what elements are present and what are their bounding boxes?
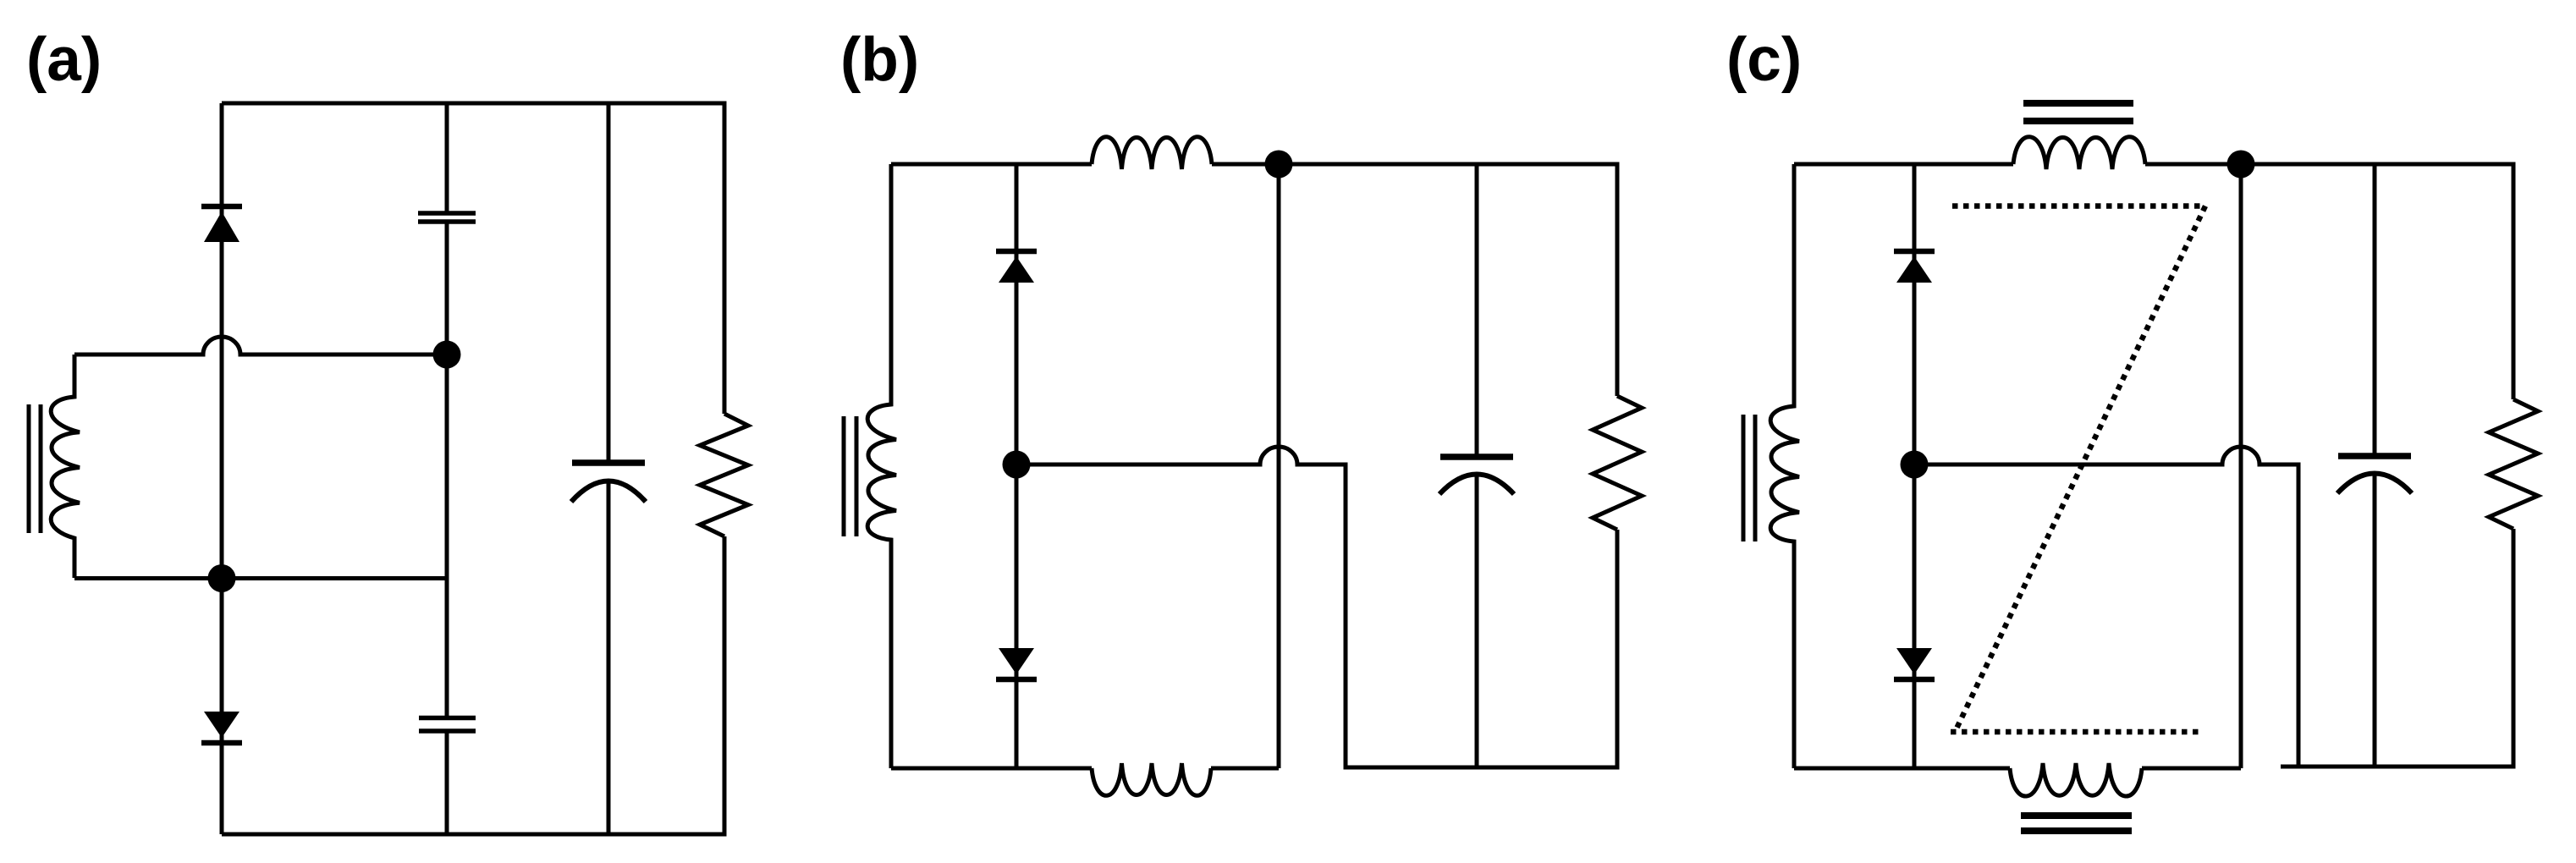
diode D2 (lower, a) — [204, 712, 239, 738]
wire bottom tap a — [74, 576, 447, 580]
node dot b2 — [1003, 451, 1031, 479]
inductor L2 (bottom, b) — [1092, 763, 1211, 795]
inductor L3 (top, c) — [2013, 137, 2145, 169]
node dot a1 — [208, 564, 236, 592]
wire right edge bottom a — [723, 536, 727, 837]
wire top rail c — [1794, 162, 2013, 167]
node dot b1 — [1265, 151, 1293, 179]
wire center tap with hop c — [1914, 447, 2298, 464]
wire right edge top a — [723, 102, 727, 415]
diode D6 (lower, c) — [1896, 648, 1932, 674]
diode D3 (upper, b) — [996, 249, 1037, 255]
resistor R1 (a) — [700, 414, 748, 536]
capacitor C1 (upper, a) — [418, 213, 476, 222]
capacitor C3 (polarized, a) — [572, 459, 645, 466]
svg-text:(b): (b) — [840, 25, 919, 94]
wire bottom right rail c — [2281, 765, 2513, 769]
wire right vertical from dot c — [2239, 164, 2243, 768]
dotted coupling top — [1952, 203, 2205, 209]
transformer core b — [842, 416, 846, 536]
wire top rail b — [891, 162, 1092, 167]
resistor R2 (b) — [1593, 396, 1642, 530]
wire bottom rail c left — [1794, 767, 2010, 771]
wire right edge top b — [1616, 162, 1620, 397]
diode D4 (lower, b) — [999, 648, 1034, 674]
diode D5 (upper, c) — [1894, 249, 1935, 255]
capacitor C5 (polarized, c) — [2338, 453, 2411, 459]
wire bottom rail b left — [891, 767, 1092, 771]
wire output cap branch c — [2373, 164, 2377, 767]
node dot c1 — [2227, 151, 2255, 179]
transformer core c — [1742, 415, 1746, 541]
node dot a2 — [433, 341, 461, 369]
wire descending + bottom right rail b — [1344, 464, 1618, 767]
wire diode branch c — [1913, 164, 1917, 768]
wire center tap with hop b — [1016, 447, 1346, 464]
wire descending c — [2297, 463, 2301, 767]
wire top tap with hop a — [74, 337, 447, 355]
wire right edge bottom b — [1616, 530, 1620, 770]
svg-text:(c): (c) — [1726, 25, 1802, 94]
wire right vertical from dot b — [1277, 164, 1281, 768]
wire top rail c right — [2145, 162, 2513, 167]
wire output cap branch a — [607, 103, 611, 834]
wire output cap branch b — [1475, 164, 1479, 767]
wire bottom rail c right of L4 — [2142, 767, 2241, 771]
wire left edge + coil b — [867, 164, 896, 768]
wire top rail b right — [1212, 162, 1617, 167]
inductor L1 (top, b) — [1092, 137, 1212, 169]
transformer secondary coil a — [51, 355, 80, 578]
core lines below L4 — [2021, 816, 2132, 831]
wire diode branch a — [220, 103, 224, 834]
wire right edge top c — [2512, 162, 2516, 400]
wire diode branch b — [1015, 164, 1019, 768]
svg-text:(a): (a) — [26, 25, 102, 94]
capacitor C4 (polarized, b) — [1440, 453, 1513, 460]
transformer core a — [27, 404, 31, 533]
core lines above L3 — [2023, 103, 2133, 121]
wire bottom rail a — [222, 833, 724, 837]
wire right edge bottom c — [2512, 529, 2516, 769]
dotted coupling bottom — [1951, 729, 2199, 735]
resistor R3 (c) — [2489, 399, 2538, 529]
wire capacitor branch a — [445, 103, 449, 834]
inductor L4 (bottom, c) — [2010, 763, 2142, 796]
wire top rail a — [222, 102, 724, 106]
diode D1 (upper, a) — [201, 204, 242, 210]
dotted coupling diagonal — [1957, 206, 2205, 729]
wire bottom rail b right of L2 — [1211, 767, 1279, 771]
node dot c2 — [1901, 451, 1929, 479]
capacitor C2 (lower, a) — [419, 718, 476, 732]
wire left edge + coil c — [1770, 164, 1799, 768]
